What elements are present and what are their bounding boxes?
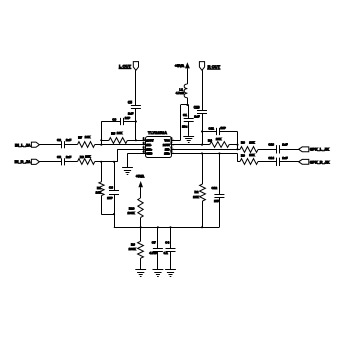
svg-text:R2: R2: [195, 190, 199, 194]
svg-text:10u: 10u: [182, 124, 187, 128]
svg-text:C2: C2: [57, 138, 61, 142]
svg-text:C8: C8: [57, 155, 61, 159]
svg-text:R6: R6: [241, 141, 245, 145]
svg-text:R4: R4: [208, 138, 212, 142]
svg-text:10K: 10K: [216, 137, 222, 141]
svg-text:1uF: 1uF: [128, 112, 134, 116]
svg-text:0.1: 0.1: [164, 251, 169, 255]
svg-text:VCC: VCC: [164, 138, 170, 142]
svg-text:L OUT: L OUT: [119, 63, 131, 68]
svg-text:SPK_L_JK: SPK_L_JK: [310, 148, 329, 152]
svg-text:R OUT: R OUT: [208, 64, 221, 69]
svg-text:1IN-: 1IN-: [146, 143, 151, 147]
svg-text:C5: C5: [128, 100, 132, 104]
svg-text:+5VA: +5VA: [136, 175, 145, 179]
svg-text:10K: 10K: [96, 191, 102, 195]
svg-text:C1: C1: [183, 113, 187, 117]
svg-text:+5VA: +5VA: [175, 64, 185, 68]
svg-text:10P: 10P: [220, 126, 225, 130]
svg-text:10K: 10K: [249, 140, 255, 144]
svg-text:23P: 23P: [107, 196, 112, 200]
svg-text:R10: R10: [129, 206, 135, 210]
svg-text:C12: C12: [212, 186, 218, 190]
svg-text:IN_L_JA: IN_L_JA: [15, 142, 31, 147]
svg-text:1uF: 1uF: [282, 156, 288, 160]
svg-text:R8: R8: [80, 155, 84, 159]
svg-text:TLV2252A: TLV2252A: [148, 131, 167, 135]
svg-text:IN_R_JA: IN_R_JA: [15, 159, 31, 164]
svg-text:R5: R5: [111, 131, 115, 135]
svg-text:2IN+: 2IN+: [164, 152, 170, 156]
svg-text:C7: C7: [152, 241, 156, 245]
svg-text:1OUT: 1OUT: [146, 138, 154, 142]
svg-text:SPK_R_JK: SPK_R_JK: [310, 161, 330, 165]
svg-text:10P: 10P: [125, 116, 130, 120]
svg-text:1uF: 1uF: [66, 138, 72, 142]
svg-text:R3: R3: [131, 242, 135, 246]
svg-text:2IN-: 2IN-: [165, 147, 170, 151]
svg-text:1uF: 1uF: [66, 155, 72, 159]
svg-text:1uF: 1uF: [282, 143, 288, 147]
svg-text:4.7uH: 4.7uH: [176, 91, 184, 95]
svg-text:100K: 100K: [128, 211, 136, 215]
svg-text:10K: 10K: [85, 155, 91, 159]
svg-text:1IN+: 1IN+: [146, 147, 152, 151]
svg-text:4.7uF: 4.7uF: [149, 251, 157, 255]
svg-text:10P: 10P: [214, 199, 219, 203]
svg-text:C11: C11: [209, 127, 215, 131]
svg-text:100K: 100K: [129, 247, 137, 251]
svg-text:C3: C3: [109, 186, 113, 190]
svg-text:R9: R9: [241, 154, 245, 158]
svg-text:C9: C9: [112, 117, 116, 121]
svg-text:C13: C13: [268, 143, 274, 147]
svg-text:2OUT: 2OUT: [163, 143, 171, 147]
svg-text:10K: 10K: [249, 153, 255, 157]
svg-text:R7: R7: [78, 135, 82, 139]
svg-text:C4: C4: [165, 241, 169, 245]
svg-text:C14: C14: [268, 156, 274, 160]
svg-text:10K: 10K: [85, 135, 91, 139]
svg-text:R1: R1: [97, 186, 101, 190]
svg-text:1uF: 1uF: [194, 115, 200, 119]
svg-text:C10: C10: [194, 105, 200, 109]
svg-text:GND: GND: [146, 152, 152, 156]
svg-text:10K: 10K: [193, 195, 199, 199]
svg-text:10K: 10K: [117, 131, 123, 135]
